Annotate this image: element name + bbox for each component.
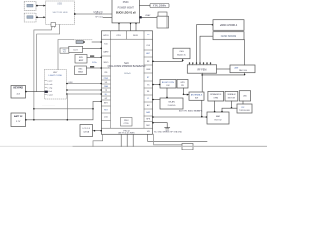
wifi box J: [160, 98, 183, 109]
SIM card connector: [157, 12, 169, 28]
svg-text:UART: UART: [103, 51, 109, 54]
svg-text:BL: BL: [105, 94, 107, 96]
wire SoC to H: [152, 84, 160, 86]
SoC main IC U2: [102, 31, 153, 135]
box D (below C): [237, 104, 252, 113]
svg-text:USB: USB: [57, 3, 62, 5]
svg-text:.·.·.·.·.·.·.: .·.·.·.·.·.·.: [42, 105, 55, 107]
component U5 on USB section bottom edge: [51, 23, 56, 28]
SoC inner PMU sub-block: [121, 118, 133, 127]
SoC bottom stub 1: [120, 134, 122, 146]
wire S1 to SoC: [83, 48, 102, 50]
sensor box L1: [11, 86, 26, 99]
bottom-right box A: [208, 91, 224, 101]
bottom-right box B: [225, 91, 238, 101]
svg-text:LCD: LCD: [104, 117, 109, 119]
wire SoC bottom right a: [148, 134, 207, 141]
svg-text:KEY: KEY: [53, 72, 58, 74]
wire legend to SoC (net c): [66, 93, 102, 95]
codec box I: [177, 80, 188, 89]
svg-text:SW: SW: [195, 98, 198, 100]
svg-text:BQ245 IC: BQ245 IC: [177, 55, 186, 57]
svg-text:FM: FM: [167, 85, 170, 87]
wire SoC to P: [152, 59, 184, 62]
RF transceiver box N: [187, 65, 216, 73]
svg-text:AMP: AMP: [79, 59, 84, 62]
wire SoC bottom right b: [154, 134, 182, 145]
wire F to net117: [201, 100, 203, 117]
wire legend edge drop: [66, 94, 68, 120]
CPU block U1 (top center): [112, 0, 140, 23]
svg-text:SPEAKER 8: SPEAKER 8: [210, 93, 222, 96]
svg-text:CHG: CHG: [179, 51, 184, 53]
svg-text:b: usb: b: usb: [47, 84, 52, 86]
svg-text:a: pwr: a: pwr: [47, 79, 53, 82]
wire I to J: [183, 88, 185, 95]
svg-text:TO SPK: TO SPK: [195, 110, 203, 112]
svg-text:B Rx: B Rx: [92, 62, 96, 64]
svg-text:2.4G/5G: 2.4G/5G: [168, 105, 176, 107]
svg-text:GSM: GSM: [146, 69, 151, 71]
bottom rail (dark segment): [73, 145, 267, 147]
svg-text:c: chg: c: chg: [47, 87, 52, 89]
speaker bottom box: [182, 144, 193, 150]
wire L1 to legend: [25, 91, 48, 93]
svg-text:CPU: CPU: [116, 35, 121, 37]
svg-text:QVGA: QVGA: [83, 131, 89, 134]
wire USB to CPU: [74, 11, 112, 15]
memory box eMMC: [213, 20, 244, 31]
box E (receiver): [207, 112, 229, 124]
wire S3 to SoC: [87, 62, 102, 69]
svg-text:LCD 1.8: LCD 1.8: [83, 128, 91, 130]
svg-text:SPI CLK: SPI CLK: [95, 16, 103, 18]
svg-text:TORCH LED: TORCH LED: [239, 110, 251, 112]
svg-text:I2C 1.8: I2C 1.8: [95, 13, 102, 15]
connector J1 (dashed, top-left): [24, 2, 36, 11]
CPU to SoC stubs: [118, 23, 136, 31]
wire W1 (USB block down-left bus): [34, 28, 52, 120]
wire B drop: [231, 101, 233, 109]
SoC left pin column: [102, 39, 111, 128]
svg-text:LDO: LDO: [73, 50, 78, 52]
wire N to Q: [217, 68, 230, 70]
svg-text:PA 2.4G: PA 2.4G: [239, 69, 247, 72]
svg-text:LED: LED: [243, 96, 247, 98]
svg-text:FLT: FLT: [63, 51, 66, 53]
svg-text:RF FEM: RF FEM: [197, 69, 206, 72]
svg-text:B RxD: B RxD: [124, 73, 131, 75]
wire legend to SoC (net a): [66, 82, 102, 84]
wire branch to SoC (net 108): [33, 108, 93, 110]
svg-text:CTRL: CTRL: [124, 123, 130, 125]
svg-text:XTAL 26MHz: XTAL 26MHz: [153, 5, 167, 8]
svg-text:CAM: CAM: [104, 85, 108, 88]
wire SoC to J: [152, 99, 160, 101]
bottom rail (light): [0, 145, 267, 147]
oscillator Y1: [150, 4, 169, 8]
svg-text:BLUETOOTH: BLUETOOTH: [162, 82, 175, 84]
wire J2 to USB section: [36, 16, 46, 18]
antenna switch box F: [189, 92, 204, 100]
wire A to E: [214, 101, 216, 112]
svg-text:KEY: KEY: [104, 103, 109, 105]
wire S2 to SoC: [87, 56, 102, 59]
wire CPU to oscillator: [140, 5, 151, 7]
svg-text:SDIO: SDIO: [103, 62, 108, 64]
svg-text:3.7V: 3.7V: [16, 121, 21, 123]
svg-text:SPK: SPK: [79, 57, 84, 59]
svg-text:MOTOR: MOTOR: [228, 97, 236, 99]
bottom-right box C: [239, 91, 250, 101]
svg-text:EAR: EAR: [216, 115, 221, 118]
charger box P: [173, 48, 190, 59]
svg-text:WLAN: WLAN: [168, 101, 175, 104]
svg-text:GPIO: GPIO: [103, 35, 109, 37]
svg-text:VBAT: VBAT: [145, 14, 151, 17]
wire riser to memory box 2: [200, 36, 213, 63]
svg-text:NAND SDRAM: NAND SDRAM: [221, 35, 237, 38]
SoC bottom stub 2: [126, 134, 128, 146]
wire J1 to USB section: [36, 5, 46, 7]
mic box S3: [75, 66, 87, 75]
svg-text:SPK: SPK: [146, 119, 151, 121]
svg-text:POWER MGMT: POWER MGMT: [118, 7, 135, 9]
svg-text:KEYPAD: KEYPAD: [13, 86, 23, 89]
svg-text:d: led: d: led: [47, 91, 52, 93]
svg-text:WL: WL: [147, 91, 150, 93]
battery box L2: [11, 113, 26, 127]
wire L2 to SoC: [25, 101, 102, 121]
speaker box S2: [75, 55, 87, 64]
svg-text:VIBRA M: VIBRA M: [227, 93, 235, 96]
svg-text:e: gnd: e: gnd: [47, 94, 52, 96]
SoC right pin column: [144, 39, 153, 133]
legend box (dashed, LIGHT CODE): [44, 70, 66, 100]
svg-text:RCV 32: RCV 32: [214, 119, 222, 121]
PA box Q: [230, 65, 255, 73]
wire riser to memory box 1: [197, 24, 214, 64]
svg-text:MIC: MIC: [146, 125, 150, 127]
wire I to F: [184, 94, 190, 96]
svg-text:MIC: MIC: [79, 69, 83, 71]
audio cluster corner wire: [58, 40, 73, 70]
SoC bottom-left wire: [93, 134, 103, 146]
svg-text:OHM: OHM: [213, 97, 218, 99]
svg-text:BIAS: BIAS: [78, 71, 83, 74]
wire net108: [221, 108, 237, 112]
svg-text:SoC: SoC: [124, 62, 129, 65]
svg-text:PMIC: PMIC: [123, 1, 129, 4]
wire H to J: [166, 88, 168, 98]
wire aux to CPU: [95, 13, 112, 18]
filter box S0: [60, 48, 69, 53]
wire NAND box riser b to Q: [244, 40, 246, 65]
wire N drop to F: [201, 73, 203, 92]
svg-text:DDR: DDR: [133, 35, 138, 37]
memory box NAND: [213, 32, 244, 40]
wire N drop to Q bottom: [202, 73, 245, 76]
ground symbol GND1: [152, 122, 170, 133]
SoC bottom stub 3: [132, 134, 134, 146]
connector J2 (dashed, top-left): [24, 13, 36, 22]
wire SoC to E (long): [152, 116, 207, 118]
RF box top pins: [189, 62, 211, 64]
svg-text:SECTION HUB: SECTION HUB: [53, 12, 68, 14]
svg-text:ANTENNA S: ANTENNA S: [191, 94, 203, 97]
display box M: [80, 125, 93, 137]
svg-text:eMMC LPDDR-4: eMMC LPDDR-4: [220, 25, 238, 27]
wire M to SoC: [93, 130, 102, 132]
regulator box S1: [69, 46, 83, 52]
wire C to D: [242, 101, 244, 104]
wire bead to SoC: [73, 40, 102, 43]
wire CPU to SIM card: [140, 14, 158, 19]
svg-text:GPS: GPS: [180, 82, 185, 84]
svg-text:TxD: TxD: [104, 44, 108, 46]
svg-text:UIM: UIM: [69, 82, 73, 84]
wire legend to SoC (net b): [66, 89, 102, 91]
svg-text:GND: GND: [165, 131, 170, 133]
codec box H: [160, 80, 176, 89]
svg-text:BATT 3X: BATT 3X: [14, 115, 23, 118]
ferrite bead FB1: [76, 41, 83, 44]
svg-text:PWR: PWR: [104, 78, 109, 80]
wire W2 (USB block second bus): [37, 24, 60, 91]
svg-text:BUCK LDO V1 x8: BUCK LDO V1 x8: [116, 12, 136, 15]
svg-text:QUALCOMM MSM8909 BASEBAND: QUALCOMM MSM8909 BASEBAND: [108, 65, 146, 68]
svg-text:CLK: CLK: [146, 45, 151, 47]
svg-text:LIGHT CODE: LIGHT CODE: [49, 75, 63, 77]
USB section box (dashed): [46, 1, 75, 24]
svg-text:PMU: PMU: [124, 120, 129, 122]
